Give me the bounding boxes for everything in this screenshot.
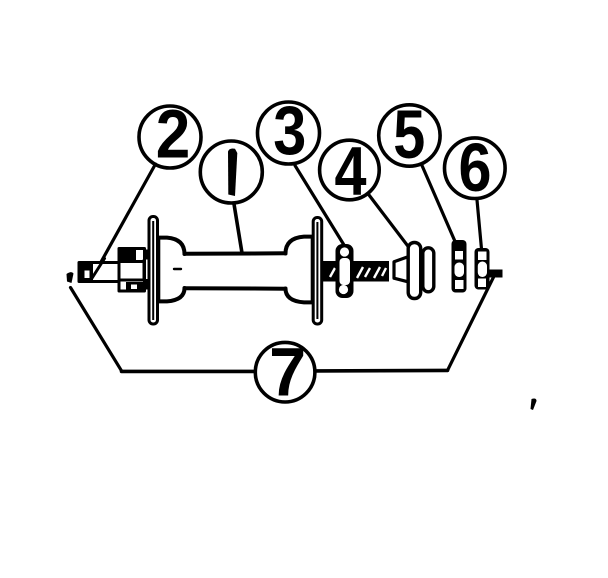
leader line from circle 5 to locknut 5 xyxy=(422,166,457,247)
small washer (part 4 right) xyxy=(423,248,434,292)
leader line from circle 3 to cone part 3 xyxy=(295,166,344,246)
callout circle 6 xyxy=(445,138,506,199)
leader line from circle 4 to washer stack xyxy=(369,195,411,250)
leader line 2 crossing axle stub xyxy=(91,259,105,281)
svg-text:2: 2 xyxy=(156,96,191,173)
svg-text:4: 4 xyxy=(335,133,367,210)
right hub cone/bell xyxy=(286,237,313,303)
callout circle 2 xyxy=(139,106,201,168)
leader line from circle 6 to nut 6 xyxy=(477,200,482,249)
callout circle 1 xyxy=(200,141,262,203)
leader line from circle 1 to hub barrel xyxy=(234,204,242,253)
callout circle 7 xyxy=(255,342,315,402)
bottom bracket left diagonal xyxy=(71,288,122,371)
small tick mark left of axle xyxy=(67,272,74,283)
cone with bearing retainer (part 3) xyxy=(336,244,354,298)
callout circle 5 xyxy=(379,105,440,166)
svg-text:6: 6 xyxy=(459,129,492,206)
svg-text:3: 3 xyxy=(273,92,306,169)
locknut (part 5) xyxy=(452,240,467,293)
leader line from circle 2 to axle xyxy=(91,164,156,280)
right hub flange xyxy=(313,218,322,325)
bottom bracket right horizontal from circle 7 xyxy=(317,369,448,373)
axle nut (part 6) xyxy=(475,248,490,290)
digit 1 (plain bar) xyxy=(228,148,237,196)
washer behind left flange xyxy=(144,250,150,290)
hub barrel xyxy=(185,253,286,288)
hub axle left stub xyxy=(79,263,119,282)
threaded axle (right, dark) xyxy=(322,261,389,282)
locknut 2 (left nut) xyxy=(119,249,145,292)
callout circle 3 xyxy=(258,102,320,164)
svg-text:7: 7 xyxy=(269,333,306,410)
left hub flange xyxy=(149,217,158,325)
small comma bottom right xyxy=(531,399,537,410)
callout circle 4 xyxy=(320,140,380,200)
large washer (part 4 middle) xyxy=(408,243,421,299)
axle left end cap (dark) xyxy=(79,263,92,282)
axle end tab right of part 6 xyxy=(490,270,503,278)
bottom bracket right diagonal xyxy=(448,275,495,371)
washer cup (part 4 left) xyxy=(394,257,408,282)
bottom bracket left horizontal to circle 7 xyxy=(122,370,254,374)
left hub cone/bell xyxy=(158,238,185,302)
svg-text:5: 5 xyxy=(393,96,425,173)
